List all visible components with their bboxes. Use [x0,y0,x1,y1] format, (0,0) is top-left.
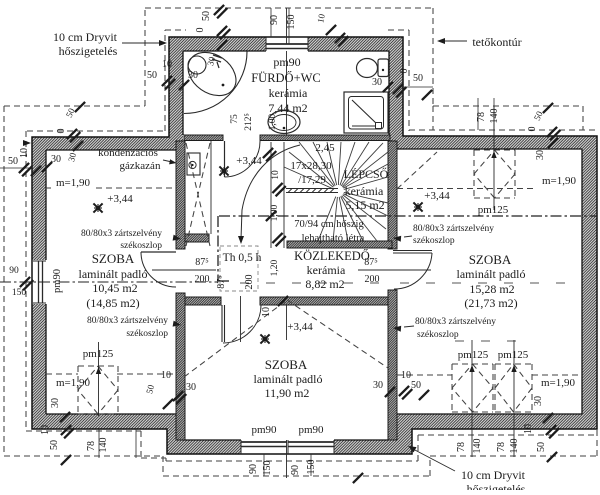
svg-text:90: 90 [9,266,19,276]
svg-text:11,90 m2: 11,90 m2 [265,386,310,400]
svg-text:kerámia: kerámia [307,263,346,277]
svg-text:laminált padló: laminált padló [254,372,323,386]
wall right room bottom [397,414,597,429]
svg-text:+3,44: +3,44 [424,190,450,202]
wall bathroom bottom right segment [260,135,390,141]
wall left room top [32,137,176,150]
svg-text:5,15 m2: 5,15 m2 [345,198,384,212]
staircase handrail [286,188,338,190]
svg-text:székoszlop: székoszlop [126,329,168,339]
roof edge dashed diagonal bottom room left [184,300,287,377]
svg-text:10: 10 [19,148,30,158]
svg-text:lehajtható létra: lehajtható létra [302,233,365,244]
stair opening edge line in bathroom south wall [294,140,350,142]
svg-text:87⁵: 87⁵ [364,257,378,268]
svg-text:30: 30 [51,154,61,165]
wall left room left lower [32,304,46,429]
roof window pm125 left room [78,342,118,416]
svg-text:10: 10 [40,425,51,435]
svg-text:1,00: 1,00 [268,113,278,130]
svg-text:pm90: pm90 [273,55,300,69]
svg-text:m=1,90: m=1,90 [56,177,91,189]
svg-text:80/80x3 zártszelvény: 80/80x3 zártszelvény [415,317,496,327]
window pm90 bathroom top [266,43,308,45]
svg-text:tetőkontúr: tetőkontúr [472,35,521,49]
svg-text:140: 140 [472,439,483,454]
svg-text:80/80x3 zártszelvény: 80/80x3 zártszelvény [413,224,494,234]
svg-text:30: 30 [373,380,383,391]
door hall to left room [141,251,176,253]
svg-text:15,28 m2: 15,28 m2 [469,282,514,296]
svg-text:80/80x3 zártszelvény: 80/80x3 zártszelvény [81,229,162,239]
svg-text:200: 200 [244,275,255,290]
wall right room right [582,136,597,429]
svg-text:30: 30 [533,396,544,406]
height line m190 left room bottom [46,373,78,375]
svg-text:10: 10 [161,370,171,381]
wall bathroom bottom left segment [184,135,223,141]
svg-text:m=1,90: m=1,90 [56,377,91,389]
svg-text:150: 150 [286,15,297,30]
svg-text:székoszlop: székoszlop [120,241,162,251]
wall bathroom top right segment [308,37,403,51]
svg-text:30: 30 [372,77,382,88]
svg-text:hőszigetelés: hőszigetelés [59,44,118,58]
stair dimension chain lines [270,142,272,248]
wall right room top [397,136,597,149]
svg-text:50: 50 [413,73,423,84]
svg-text:gázkazán: gázkazán [120,160,161,172]
wall left room bottom [32,414,185,429]
svg-text:30: 30 [535,150,546,160]
sparse dashed line right room middle [455,340,528,342]
svg-text:140: 140 [98,438,109,453]
svg-text:pm90: pm90 [298,424,324,436]
wall stair south [287,241,392,248]
svg-text:m=1,90: m=1,90 [542,175,577,187]
wall internal column stub [185,234,209,242]
height line m190 left room top [96,187,176,189]
svg-text:7,44 m2: 7,44 m2 [268,101,307,115]
height line m190 right room top [397,188,536,190]
svg-text:(14,85 m2): (14,85 m2) [86,296,139,310]
washbasin [268,111,300,134]
wall hall south right segment [260,297,388,305]
svg-text:30: 30 [186,382,196,393]
door hall to bottom room [221,305,223,342]
roof window pm125 right room bottom 1 [452,340,493,457]
svg-text:8,82 m2: 8,82 m2 [305,277,344,291]
svg-text:pm125: pm125 [458,349,489,361]
wall bathroom right [389,37,403,148]
svg-text:80/80x3 zártszelvény: 80/80x3 zártszelvény [87,316,168,326]
svg-text:50: 50 [201,11,212,21]
svg-text:78: 78 [456,442,467,452]
roof window pm125 right room bottom 2 [495,340,532,457]
svg-text:10,45 m2: 10,45 m2 [92,281,137,295]
svg-text:75: 75 [230,114,240,124]
svg-text:pm125: pm125 [478,204,509,216]
wall bottom centre room bottom left segment [167,440,241,454]
wall step connector right [397,414,412,454]
svg-text:SZOBA: SZOBA [469,252,512,267]
toilet WC [378,59,389,77]
svg-text:+3,44: +3,44 [107,193,133,205]
svg-text:10 cm Dryvit: 10 cm Dryvit [53,30,118,44]
wall bathroom top left segment [169,37,266,51]
svg-text:0: 0 [399,69,410,74]
svg-text:50: 50 [49,440,60,450]
svg-text:m=1,90: m=1,90 [541,377,576,389]
svg-text:FÜRDŐ+WC: FÜRDŐ+WC [251,71,321,85]
svg-text:+3,44: +3,44 [287,321,313,333]
roof edge dashed diagonal bottom room right [287,300,388,368]
gas boiler kondenzációs gázkazán [187,153,200,175]
svg-text:150: 150 [306,460,317,475]
svg-text:pm90: pm90 [251,424,277,436]
svg-text:2,45: 2,45 [315,142,335,154]
wall bottom centre room left block [167,428,182,454]
svg-text:30: 30 [188,70,198,81]
svg-text:SZOBA: SZOBA [265,357,308,372]
svg-text:LÉPCSŐ: LÉPCSŐ [344,167,389,181]
shaft cross dashed [186,143,210,246]
svg-text:200: 200 [195,274,210,285]
svg-text:10: 10 [162,59,172,70]
window pm90 bottom room first [241,441,287,443]
centre axis horizontal left [0,281,217,283]
svg-text:10: 10 [523,424,534,434]
wall internal left (hall west) upper [176,141,185,249]
svg-text:10: 10 [261,307,272,317]
wall internal left (hall west) lower [176,293,185,440]
svg-text:87⁵: 87⁵ [216,275,227,289]
svg-text:kondenzációs: kondenzációs [98,147,158,159]
shower tray [344,92,388,133]
svg-text:kerámia: kerámia [269,86,308,100]
wall hall south left segment [185,297,221,305]
height line m190 right room bottom [397,374,452,376]
svg-text:90: 90 [290,465,301,475]
svg-text:székoszlop: székoszlop [417,330,459,340]
svg-text:140: 140 [489,109,500,124]
svg-text:pm90: pm90 [52,269,63,293]
svg-text:10 cm Dryvit: 10 cm Dryvit [461,468,526,482]
svg-text:50: 50 [8,156,18,167]
svg-text:10: 10 [401,370,411,381]
door hall to right room [393,250,432,252]
svg-text:0: 0 [527,127,538,132]
svg-text:/17,29: /17,29 [298,174,326,186]
svg-text:17x28,30: 17x28,30 [290,160,332,172]
wall internal hall east lower [388,290,397,440]
svg-text:87⁵: 87⁵ [195,257,209,268]
svg-text:székoszlop: székoszlop [413,236,455,246]
door bathroom to stairs [224,141,226,177]
svg-text:KÖZLEKEDŐ: KÖZLEKEDŐ [294,249,370,263]
window pm90 bottom room second [288,441,334,443]
svg-text:50: 50 [536,442,547,452]
svg-text:pm125: pm125 [83,348,114,360]
attic hatch dashed rectangle [220,246,258,291]
shaft boundary line [210,141,212,234]
svg-text:+3,44: +3,44 [236,155,262,167]
svg-text:90: 90 [248,464,259,474]
roof edge dashed diagonal right room corner [397,152,437,189]
svg-text:78: 78 [496,442,507,452]
svg-text:(21,73 m2): (21,73 m2) [464,296,517,310]
svg-text:212⁵: 212⁵ [244,113,254,131]
svg-text:200: 200 [365,274,380,285]
wall bathroom left [169,37,183,141]
wall internal hall east / rooms divider [388,141,397,249]
svg-text:30: 30 [50,398,61,408]
svg-text:0: 0 [56,129,67,134]
attic ladder opening dash-dot [217,216,219,281]
bath tap [213,55,222,58]
svg-text:kerámia: kerámia [345,184,384,198]
svg-text:0: 0 [195,28,206,33]
staircase winder treads [284,142,388,241]
svg-text:hőszigetelés: hőszigetelés [467,482,526,490]
svg-text:pm125: pm125 [498,349,529,361]
svg-text:50: 50 [147,70,157,81]
staircase walk line with arrow [241,145,300,239]
svg-text:140: 140 [509,439,520,454]
wall left room left [32,137,46,260]
roof window pm125 right room top [474,106,515,210]
svg-text:78: 78 [86,441,97,451]
window pm90 left room west wall [38,261,40,303]
centre axis vertical [286,8,288,44]
svg-text:laminált padló: laminált padló [79,267,148,281]
svg-text:10: 10 [271,170,281,180]
svg-text:1,20: 1,20 [270,259,280,276]
svg-text:Th 0,5 h: Th 0,5 h [223,252,262,264]
section line horizontal [219,215,597,217]
corner bathtub [184,52,247,114]
svg-text:laminált padló: laminált padló [457,267,526,281]
centre axis horizontal right fragments [240,282,390,284]
wall outlines [32,37,597,454]
svg-text:70/94 cm hőszig: 70/94 cm hőszig [294,219,364,230]
wall bottom centre room bottom right segment [334,440,412,454]
svg-text:SZOBA: SZOBA [92,251,135,266]
